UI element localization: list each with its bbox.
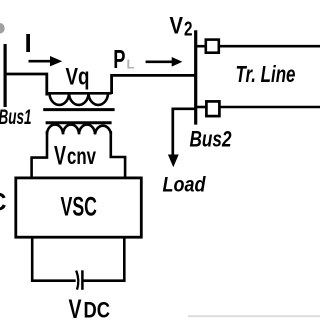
svg-text:Tr. Line: Tr. Line [236,61,296,87]
transformer T1 secondary winding Vcnv [47,125,111,135]
power flow arrow PL shaft [146,60,173,63]
bus Bus1 bar [3,44,6,107]
svg-text:2: 2 [184,19,193,41]
svg-text:V: V [69,294,82,320]
wire Bus1 to transformer [4,74,47,96]
wire transformer to Bus2 [112,75,196,94]
transformer T1 core line upper [43,108,114,111]
transformer T1 core line lower [46,121,112,124]
breaker CB1 [206,40,219,53]
current arrow I head [50,56,62,66]
svg-text:Bus2: Bus2 [190,127,233,152]
converter VSC box [16,178,142,237]
wire VSC right lead to DC capacitor [83,238,125,281]
svg-text:L: L [127,57,135,72]
svg-text:cnv: cnv [67,143,96,169]
wire Bus2 to breaker CB1 [196,45,206,48]
svg-text:V: V [170,13,184,40]
svg-text:VSC: VSC [61,192,98,222]
svg-text:Vq: Vq [66,64,90,91]
svg-text:Load: Load [163,174,207,197]
svg-text:I: I [25,28,32,58]
wire secondary right lead to VSC [111,131,125,178]
capacitor VDC curved plate [76,271,78,290]
breaker CB2 [206,101,219,116]
cropped grey fragment top-left [0,23,5,34]
transformer T1 primary winding [47,93,112,105]
wire breaker CB2 to line [219,106,320,109]
wire Bus2 to breaker CB2 [196,106,207,109]
power flow arrow PL head [172,57,183,67]
wire breaker CB1 to line [219,45,320,48]
wire secondary left lead to VSC [32,131,47,178]
svg-text:P: P [113,44,125,74]
capacitor VDC straight plate [81,270,84,290]
svg-text:C: C [0,189,7,217]
load arrow head [168,155,179,168]
wire Bus2 to load tap [173,109,196,155]
bus Bus2 bar [194,30,197,124]
faint scan line bottom right [188,315,320,317]
svg-text:Bus1: Bus1 [0,106,32,129]
svg-text:V: V [54,141,66,171]
svg-text:DC: DC [84,298,111,320]
wire VSC left lead to DC capacitor [32,238,75,281]
current arrow I shaft [29,60,52,63]
